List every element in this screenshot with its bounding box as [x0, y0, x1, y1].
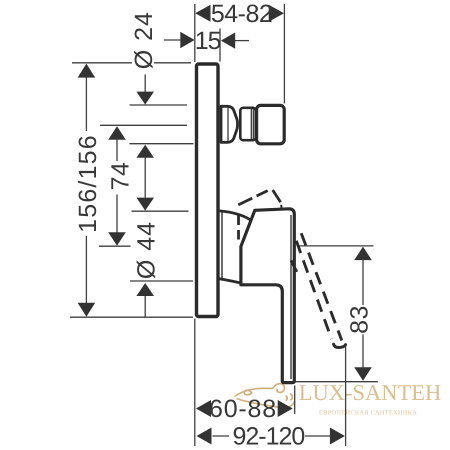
- lever up position tip dash: [273, 190, 281, 202]
- arrow 15 right: [221, 32, 235, 48]
- lever down corner dash: [291, 260, 297, 272]
- svg-text:156/156: 156/156: [74, 134, 102, 233]
- extension line wall bottom (x=194.8): [194, 319, 196, 447]
- handle body inner line: [290, 215, 292, 379]
- arrow stem 83 top: [362, 260, 364, 306]
- arrow dia44 bottom: [136, 283, 154, 296]
- sleeve junction line: [221, 212, 223, 279]
- arrow stem dia24 top: [144, 75, 146, 95]
- handle body outline: [241, 209, 294, 383]
- arrow 60-88 right: [278, 400, 293, 417]
- arrow 83 bottom: [354, 367, 372, 381]
- arrow 156 top: [78, 64, 96, 78]
- watermark ornament flourish: [235, 384, 295, 408]
- extension line sleeve bottom (y=281): [130, 280, 193, 282]
- arrow 156 bottom: [78, 303, 96, 317]
- svg-text:Ø 44: Ø 44: [133, 221, 161, 279]
- arrow stem 74 bottom: [116, 195, 118, 233]
- arrow tail 15 left: [164, 39, 183, 41]
- arrow tail 92-120 left: [213, 435, 230, 437]
- extension line spout bottom (y=143.7): [130, 143, 194, 145]
- lever up position dashed edge: [238, 191, 267, 205]
- extension line handle front (x=294.7): [294, 386, 296, 415]
- spout union flange: [221, 106, 238, 142]
- sleeve top curve: [220, 211, 250, 219]
- svg-text:LUX-SANTEH: LUX-SANTEH: [299, 380, 441, 405]
- arrow dia24 top: [136, 92, 154, 105]
- extension line plate front (x=220): [219, 29, 221, 62]
- lever up tick on handle top: [280, 205, 282, 209]
- sleeve bottom curve: [219, 279, 239, 283]
- svg-text:60-88: 60-88: [209, 395, 277, 423]
- extension line handle bottom right (y=381.7): [295, 381, 378, 383]
- spout union flange inner line: [227, 108, 229, 142]
- svg-text:74: 74: [107, 162, 135, 191]
- spout union body: [257, 105, 285, 143]
- arrow 92-120 right: [330, 428, 345, 445]
- arrow 83 top: [354, 247, 372, 261]
- lever down dashed left edge: [296, 241, 331, 339]
- arrow stem 156 top: [85, 77, 87, 132]
- extension line plate bottom (y=317.2): [70, 316, 193, 318]
- arrow stem 83 bottom: [362, 335, 364, 369]
- arrow dia44 top: [136, 198, 154, 211]
- svg-text:54-82: 54-82: [211, 0, 272, 28]
- extension line lever top right (y=245.9): [297, 245, 373, 247]
- handle axis line left (y=246.2): [99, 245, 131, 247]
- svg-text:Ø 24: Ø 24: [130, 11, 158, 69]
- arrow 54-82 right: [269, 5, 284, 22]
- arrow 74 bottom: [108, 232, 126, 246]
- arrow stem dia44 bottom: [144, 296, 146, 317]
- svg-text:92-120: 92-120: [232, 423, 304, 450]
- arrow tail 15 right: [233, 40, 249, 42]
- extension line spout top (y=105): [130, 104, 188, 106]
- shared stem dia24 bottom / dia44 top: [144, 157, 146, 198]
- lever down tip arc: [334, 344, 346, 347]
- spout union nut inner lines: [250, 109, 252, 139]
- arrow tail 92-120 right: [305, 435, 332, 437]
- extension line sleeve top (y=211.2): [132, 210, 189, 212]
- extension line wall top (x=194.8): [194, 4, 196, 62]
- spout union nut: [240, 108, 255, 140]
- arrow 15 left: [180, 32, 194, 48]
- extension line connector tip (x=284.4): [283, 4, 285, 104]
- extension line lever tip (x=345.6): [345, 346, 347, 447]
- arrow 92-120 left: [197, 428, 212, 445]
- extension line plate top (y=62.8): [72, 62, 132, 64]
- lever down dashed right edge: [300, 230, 342, 341]
- arrow 60-88 left: [196, 400, 211, 417]
- spout axis line (y=125.3): [100, 124, 187, 126]
- svg-text:83: 83: [346, 305, 374, 334]
- arrow 74 top: [108, 126, 126, 140]
- svg-text:15: 15: [195, 27, 221, 55]
- arrow stem 74 top: [116, 139, 118, 161]
- arrow stem 156 bottom: [85, 236, 87, 304]
- arrow 54-82 left: [195, 5, 210, 22]
- svg-text:ЕВРОПЕЙСКАЯ САНТЕХНИКА: ЕВРОПЕЙСКАЯ САНТЕХНИКА: [319, 409, 417, 417]
- wall plate: [197, 64, 219, 317]
- arrow dia24 bottom: [136, 145, 154, 158]
- lever up rear dashed edge: [237, 216, 240, 241]
